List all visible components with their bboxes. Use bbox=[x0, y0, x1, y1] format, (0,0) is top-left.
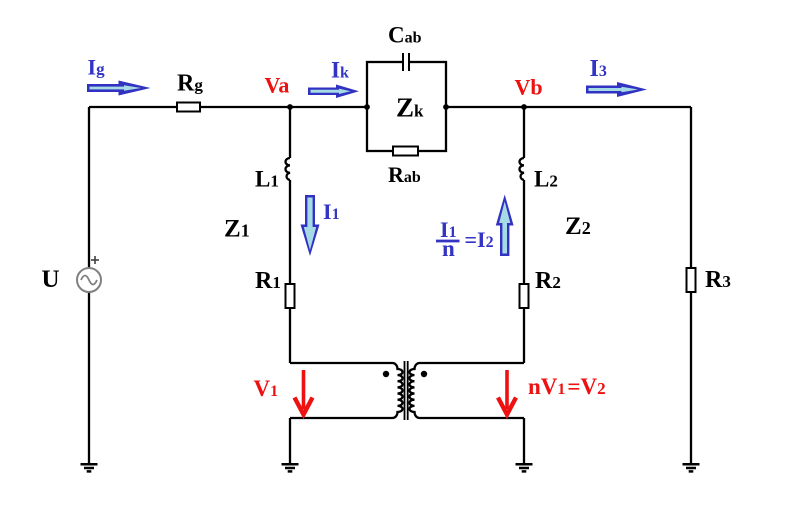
svg-text:Z1: Z1 bbox=[224, 215, 250, 242]
svg-text:Z2: Z2 bbox=[565, 213, 591, 240]
svg-text:Vb: Vb bbox=[515, 75, 543, 100]
svg-text:Va: Va bbox=[265, 73, 290, 98]
svg-text:nV1 =V2: nV1 =V2 bbox=[528, 374, 606, 399]
svg-text:U: U bbox=[42, 266, 60, 293]
svg-text:n: n bbox=[442, 236, 455, 261]
